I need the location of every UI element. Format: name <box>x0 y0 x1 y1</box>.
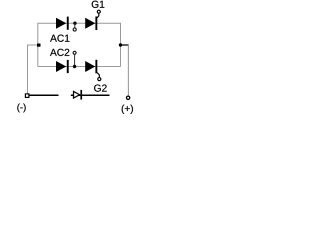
terminal (+) <box>126 96 129 99</box>
wire: freewheel diode lead <box>71 94 110 96</box>
label G1 <box>92 1 105 8</box>
gate terminal G2 <box>98 78 101 81</box>
label (-) <box>17 104 25 113</box>
node: right junction dot <box>119 43 122 46</box>
freewheel diode D3 (open) <box>74 90 83 100</box>
wire: plus vertical rail <box>127 44 129 96</box>
node: left junction dot <box>37 44 41 47</box>
node AC2 tap <box>73 51 76 68</box>
thyristor T2 (AC2 row) <box>85 60 99 78</box>
label AC1 <box>50 35 69 42</box>
diode D1 (AC1 row, left) <box>56 17 69 30</box>
background <box>0 0 142 114</box>
wire: branch from junction to plus rail <box>121 44 129 46</box>
diode D2 (AC2 row, left) <box>56 60 69 73</box>
wire: branch to minus rail <box>28 45 38 93</box>
wire: AC1 row horizontal <box>38 22 121 24</box>
terminal (-) <box>25 94 29 98</box>
label (+) <box>122 105 133 114</box>
thyristor T1 (AC1 row) <box>85 13 99 30</box>
wire: right vertical rail between rows <box>120 23 122 67</box>
wire: minus lead <box>29 94 59 96</box>
wire: left vertical rail <box>37 23 39 67</box>
node AC1 tap <box>73 22 76 32</box>
label AC2 <box>50 49 69 56</box>
wire: AC2 row horizontal <box>38 66 121 68</box>
gate terminal G1 <box>97 10 100 13</box>
label G2 <box>94 84 107 91</box>
